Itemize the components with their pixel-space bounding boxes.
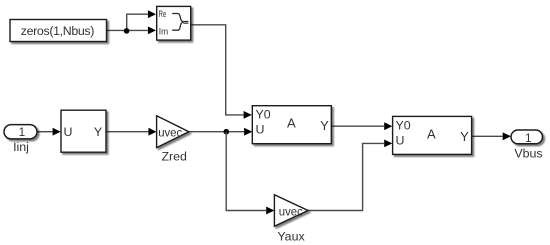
merge icon inside Re/Im block	[172, 14, 183, 31]
gain triangle Yaux	[274, 195, 308, 227]
wire U/Y block to Zred	[106, 131, 149, 133]
arrowhead into Yaux	[266, 207, 274, 215]
wire A1 Y to A2 Y0	[331, 125, 384, 127]
svg-text:Re: Re	[159, 8, 167, 19]
svg-text:Im: Im	[159, 26, 169, 37]
svg-text:Iinj: Iinj	[13, 140, 29, 154]
svg-text:zeros(1,Nbus): zeros(1,Nbus)	[21, 24, 94, 38]
wire Zred to A1 U	[189, 131, 244, 133]
wire zeros block to Im port	[107, 29, 148, 31]
arrowhead into Re	[148, 10, 156, 18]
svg-text:U: U	[396, 134, 405, 148]
subsystem block U/Y	[61, 110, 106, 152]
wire junction down to Yaux	[226, 132, 266, 211]
arrowhead into A1 Y0	[244, 111, 252, 119]
wire A2 Y to Vbus	[471, 135, 503, 137]
arrowhead into Zred	[148, 128, 156, 136]
arrowhead into Im	[148, 27, 156, 35]
wire Yaux up to A2 U	[308, 143, 384, 210]
wire branch up to Re port	[127, 14, 148, 30]
svg-text:U: U	[64, 125, 73, 139]
constant block zeros(1,Nbus)	[10, 20, 107, 42]
algebraic block A1	[252, 106, 331, 144]
junction dot near zeros output	[124, 28, 130, 34]
svg-text:Y: Y	[94, 125, 102, 139]
svg-text:uvec: uvec	[158, 126, 182, 140]
arrowhead into A2 Y0	[384, 122, 392, 130]
wire Iinj to U/Y block	[37, 131, 53, 133]
svg-text:Yaux: Yaux	[277, 230, 305, 244]
svg-text:U: U	[256, 123, 265, 137]
svg-text:1: 1	[19, 125, 26, 139]
svg-text:Y: Y	[460, 129, 469, 144]
arrowhead into A2 U	[384, 140, 392, 148]
arrowhead into U/Y	[53, 128, 61, 136]
inport oval Iinj	[4, 125, 37, 139]
svg-text:Y: Y	[320, 118, 329, 133]
wire Re/Im output down to A1 Y0	[191, 25, 244, 115]
svg-text:Y0: Y0	[396, 119, 411, 133]
svg-text:Zred: Zred	[161, 150, 187, 164]
svg-text:uvec: uvec	[279, 204, 303, 218]
Real-Imag to Complex block	[157, 6, 191, 40]
svg-text:1: 1	[525, 131, 532, 145]
svg-text:Y0: Y0	[256, 108, 271, 122]
svg-text:Vbus: Vbus	[514, 147, 542, 161]
arrowhead into A1 U	[244, 128, 252, 136]
algebraic block A2	[393, 116, 472, 154]
junction dot after Zred	[224, 129, 230, 135]
gain triangle Zred	[157, 116, 189, 148]
svg-text:A: A	[287, 116, 296, 131]
outport oval Vbus	[511, 130, 543, 144]
arrowhead into Vbus	[503, 132, 511, 140]
svg-text:A: A	[427, 126, 436, 141]
